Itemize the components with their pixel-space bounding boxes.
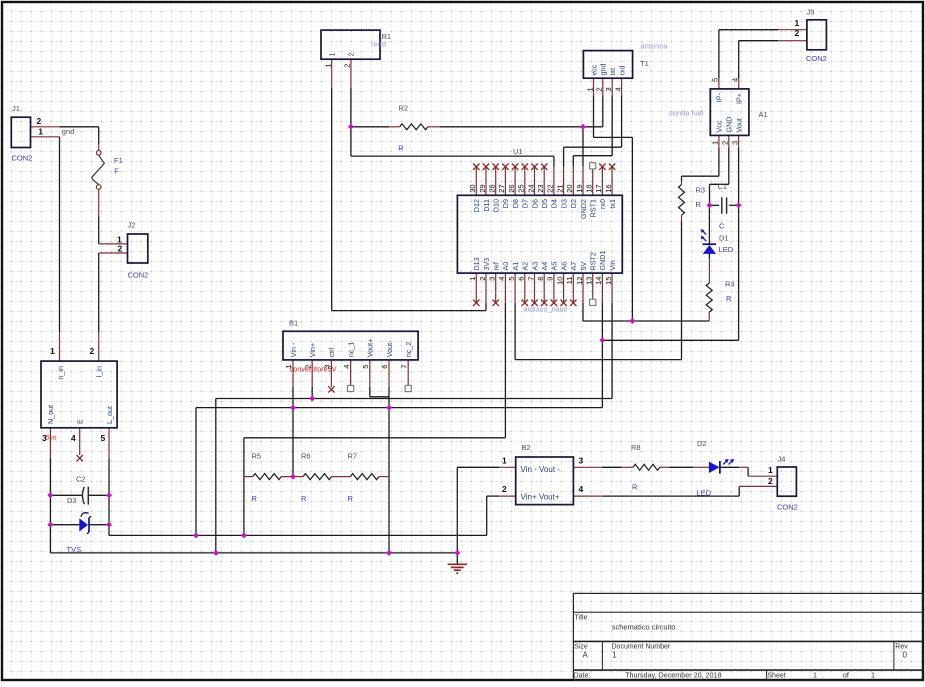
svg-text:23: 23 <box>536 184 545 192</box>
svg-text:l_in: l_in <box>95 366 104 377</box>
svg-text:Date:: Date: <box>574 672 591 679</box>
svg-text:30: 30 <box>468 184 477 192</box>
svg-text:1: 1 <box>50 346 55 356</box>
svg-text:1: 1 <box>502 455 507 465</box>
svg-text:R7: R7 <box>348 451 358 460</box>
svg-text:F: F <box>114 167 119 176</box>
svg-text:IP+: IP+ <box>735 93 744 104</box>
svg-text:D12: D12 <box>472 199 481 212</box>
svg-text:n_in: n_in <box>56 366 65 380</box>
svg-text:LED: LED <box>719 245 734 254</box>
svg-text:2: 2 <box>721 141 730 145</box>
svg-text:A1: A1 <box>759 110 768 119</box>
svg-text:gnd: gnd <box>62 127 75 136</box>
svg-text:txt: txt <box>608 68 617 76</box>
svg-text:D6: D6 <box>530 199 539 208</box>
svg-text:rx0: rx0 <box>598 199 607 209</box>
svg-text:Vin+ Vout+: Vin+ Vout+ <box>521 493 560 502</box>
svg-text:C: C <box>719 222 725 231</box>
svg-text:22: 22 <box>546 184 555 192</box>
svg-text:2: 2 <box>795 28 800 38</box>
svg-text:R: R <box>398 144 404 153</box>
svg-text:L_out: L_out <box>105 406 114 424</box>
svg-text:ctrl: ctrl <box>327 347 336 357</box>
svg-text:R4: R4 <box>725 280 735 289</box>
svg-text:5V: 5V <box>579 262 588 271</box>
svg-text:vcc: vcc <box>589 64 598 75</box>
svg-text:B1: B1 <box>289 318 298 327</box>
svg-text:2: 2 <box>90 346 95 356</box>
svg-text:D4: D4 <box>550 199 559 208</box>
svg-text:D7: D7 <box>521 199 530 208</box>
svg-text:Thursday, December 20, 2018: Thursday, December 20, 2018 <box>625 670 722 679</box>
svg-text:J1: J1 <box>12 104 20 113</box>
svg-text:F1: F1 <box>114 156 123 165</box>
svg-text:7: 7 <box>526 277 535 281</box>
svg-text:Vout: Vout <box>734 118 743 132</box>
svg-text:GND2: GND2 <box>579 199 588 219</box>
svg-text:arduino_nano: arduino_nano <box>524 305 568 314</box>
svg-text:LED: LED <box>697 489 712 498</box>
svg-text:ref: ref <box>492 262 501 270</box>
svg-text:D1: D1 <box>719 234 729 243</box>
svg-text:15: 15 <box>604 277 613 285</box>
svg-text:antenna: antenna <box>641 42 669 51</box>
svg-text:Vin - Vout -: Vin - Vout - <box>521 465 561 474</box>
svg-text:1: 1 <box>768 465 773 475</box>
svg-text:A: A <box>583 651 589 660</box>
svg-text:CON2: CON2 <box>806 54 827 63</box>
svg-text:4: 4 <box>613 87 622 91</box>
svg-text:Vin: Vin <box>608 260 617 270</box>
svg-text:24: 24 <box>526 184 535 192</box>
svg-text:16: 16 <box>604 184 613 192</box>
svg-text:C1: C1 <box>718 182 728 191</box>
svg-text:D9: D9 <box>501 199 510 208</box>
svg-text:T1: T1 <box>640 59 649 68</box>
svg-text:RST1: RST1 <box>589 199 598 217</box>
svg-text:D2: D2 <box>697 439 707 448</box>
svg-text:3: 3 <box>579 455 584 465</box>
svg-text:1: 1 <box>585 87 594 91</box>
svg-text:2: 2 <box>303 365 312 369</box>
svg-text:sonda hall: sonda hall <box>669 109 704 118</box>
svg-text:1: 1 <box>468 277 477 281</box>
svg-text:R: R <box>348 494 354 503</box>
svg-text:reed: reed <box>371 40 386 49</box>
svg-text:Size: Size <box>574 644 588 651</box>
svg-text:Rev: Rev <box>895 644 908 651</box>
svg-text:20: 20 <box>565 184 574 192</box>
svg-text:3: 3 <box>323 365 332 369</box>
svg-text:D3: D3 <box>67 496 77 505</box>
svg-text:27: 27 <box>497 184 506 192</box>
svg-text:A5: A5 <box>550 262 559 271</box>
svg-text:R: R <box>301 494 307 503</box>
svg-text:6: 6 <box>517 277 526 281</box>
svg-text:TVS: TVS <box>67 545 82 554</box>
svg-text:5: 5 <box>507 277 516 281</box>
svg-text:19: 19 <box>575 184 584 192</box>
svg-text:Vcc: Vcc <box>715 120 724 132</box>
svg-text:11: 11 <box>565 277 574 285</box>
svg-text:D8: D8 <box>511 199 520 208</box>
svg-text:D10: D10 <box>492 199 501 212</box>
svg-text:Vin+: Vin+ <box>308 343 317 357</box>
svg-text:of: of <box>843 672 849 679</box>
svg-text:1: 1 <box>813 670 817 679</box>
svg-text:21: 21 <box>555 184 564 192</box>
svg-text:nc_2: nc_2 <box>404 342 413 358</box>
svg-text:Vout-: Vout- <box>385 340 394 357</box>
svg-text:U1: U1 <box>513 147 523 156</box>
svg-text:R: R <box>632 483 638 492</box>
svg-text:CON2: CON2 <box>12 154 33 163</box>
svg-text:J2: J2 <box>128 221 136 230</box>
svg-text:12: 12 <box>575 277 584 285</box>
svg-text:A0: A0 <box>501 262 510 271</box>
svg-text:5vo: 5vo <box>46 435 57 442</box>
svg-text:9: 9 <box>546 277 555 281</box>
svg-text:13: 13 <box>585 277 594 285</box>
svg-text:29: 29 <box>478 184 487 192</box>
svg-text:1: 1 <box>328 53 337 57</box>
svg-text:4: 4 <box>497 277 506 281</box>
svg-text:17: 17 <box>594 184 603 192</box>
svg-text:28: 28 <box>488 184 497 192</box>
svg-text:4: 4 <box>71 433 76 443</box>
svg-text:1: 1 <box>284 365 293 369</box>
svg-text:8: 8 <box>536 277 545 281</box>
svg-text:2: 2 <box>118 244 123 254</box>
svg-text:3: 3 <box>604 87 613 91</box>
svg-text:R8: R8 <box>631 443 641 452</box>
svg-text:RST2: RST2 <box>589 252 598 270</box>
svg-text:0: 0 <box>903 651 908 660</box>
svg-text:A3: A3 <box>530 262 539 271</box>
svg-text:25: 25 <box>517 184 526 192</box>
svg-text:7: 7 <box>399 365 408 369</box>
svg-text:CON2: CON2 <box>128 271 149 280</box>
svg-text:IP-: IP- <box>715 92 724 102</box>
svg-text:1: 1 <box>871 670 875 679</box>
svg-text:A6: A6 <box>559 262 568 271</box>
svg-text:C2: C2 <box>76 475 86 484</box>
svg-text:2: 2 <box>478 277 487 281</box>
svg-text:3: 3 <box>488 277 497 281</box>
svg-text:R6: R6 <box>301 451 311 460</box>
svg-text:10: 10 <box>555 277 564 285</box>
svg-text:6: 6 <box>380 365 389 369</box>
svg-text:B2: B2 <box>522 443 531 452</box>
svg-text:nc_1: nc_1 <box>346 342 355 358</box>
svg-text:J3: J3 <box>807 8 815 17</box>
svg-text:4: 4 <box>579 484 584 494</box>
svg-text:GND: GND <box>725 117 734 133</box>
svg-text:2: 2 <box>343 64 352 68</box>
svg-text:5: 5 <box>361 365 370 369</box>
svg-text:3: 3 <box>730 141 739 145</box>
svg-text:Sheet: Sheet <box>767 672 785 679</box>
svg-text:GND1: GND1 <box>598 251 607 271</box>
svg-text:2: 2 <box>768 476 773 486</box>
svg-text:14: 14 <box>594 277 603 285</box>
svg-text:D13: D13 <box>472 257 481 270</box>
svg-text:1: 1 <box>612 651 617 660</box>
svg-text:R2: R2 <box>399 104 409 113</box>
svg-text:2: 2 <box>347 53 356 57</box>
svg-text:1: 1 <box>795 18 800 28</box>
svg-text:D3: D3 <box>559 199 568 208</box>
svg-text:4: 4 <box>342 365 351 369</box>
svg-text:R: R <box>252 494 258 503</box>
svg-text:R5: R5 <box>252 451 262 460</box>
svg-text:R: R <box>726 294 732 303</box>
svg-text:CON2: CON2 <box>777 503 798 512</box>
svg-text:gnd: gnd <box>599 64 608 76</box>
svg-text:rxd: rxd <box>617 66 626 76</box>
svg-text:26: 26 <box>507 184 516 192</box>
svg-text:D5: D5 <box>540 199 549 208</box>
svg-text:1: 1 <box>711 141 720 145</box>
svg-text:1: 1 <box>38 126 43 136</box>
svg-text:tx1: tx1 <box>608 199 617 209</box>
svg-text:A1: A1 <box>511 262 520 271</box>
svg-text:J4: J4 <box>778 455 786 464</box>
svg-text:1: 1 <box>324 64 333 68</box>
svg-text:A2: A2 <box>521 262 530 271</box>
svg-text:18: 18 <box>585 184 594 192</box>
svg-text:Document Number: Document Number <box>612 644 671 651</box>
svg-text:D2: D2 <box>569 199 578 208</box>
svg-text:D11: D11 <box>482 199 491 212</box>
svg-text:N_out: N_out <box>46 405 55 424</box>
svg-text:3: 3 <box>42 433 47 443</box>
svg-text:Title: Title <box>575 615 588 622</box>
svg-text:5: 5 <box>101 433 106 443</box>
svg-text:2: 2 <box>37 116 42 126</box>
svg-text:R: R <box>696 200 702 209</box>
svg-text:E: E <box>76 419 85 424</box>
svg-text:2: 2 <box>595 87 604 91</box>
svg-text:Vin -: Vin - <box>289 342 298 357</box>
svg-text:A7: A7 <box>569 262 578 271</box>
svg-text:Vout+: Vout+ <box>366 339 375 358</box>
svg-text:5: 5 <box>711 78 720 82</box>
svg-text:schematico circuito: schematico circuito <box>612 623 676 632</box>
svg-text:2: 2 <box>502 484 507 494</box>
svg-text:R3: R3 <box>696 186 706 195</box>
svg-text:4: 4 <box>731 78 740 82</box>
svg-text:3V3: 3V3 <box>482 258 491 271</box>
svg-text:A4: A4 <box>540 262 549 271</box>
